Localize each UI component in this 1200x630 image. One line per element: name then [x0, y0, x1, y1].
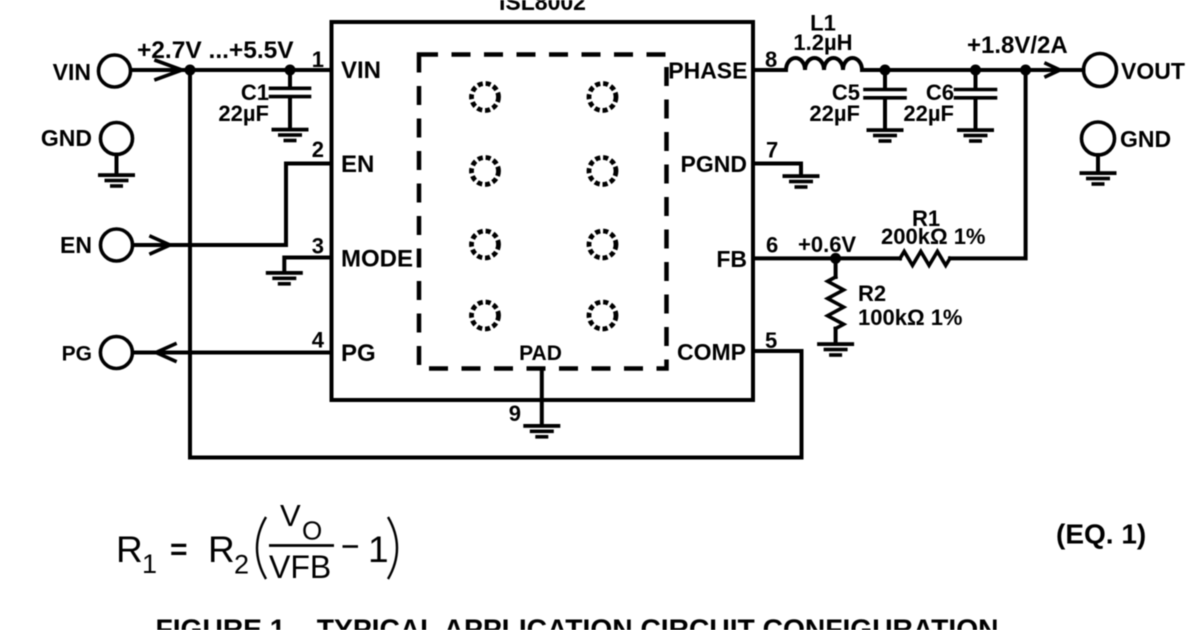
terminal EN — [101, 229, 133, 261]
svg-text:1: 1 — [142, 549, 157, 579]
capacitor C6 — [956, 90, 996, 98]
svg-text:VIN: VIN — [341, 57, 381, 84]
wire C6 stem top — [974, 70, 978, 88]
capacitor C5 — [865, 90, 905, 98]
svg-text:4: 4 — [312, 328, 325, 353]
arrow into EN — [151, 237, 170, 254]
node junction C1 tap — [285, 65, 296, 76]
terminal GND right — [1082, 122, 1115, 155]
wire PAD pin 9 stem — [540, 369, 544, 424]
node junction C6 tap — [970, 65, 981, 76]
wire GND left terminal stem — [115, 155, 119, 173]
svg-text:PHASE: PHASE — [668, 58, 747, 84]
wire C5 stem top — [883, 70, 887, 88]
svg-text:22µF: 22µF — [218, 101, 269, 126]
pad via 6 — [589, 231, 616, 258]
svg-text:V: V — [280, 498, 301, 533]
svg-text:VFB: VFB — [269, 549, 331, 585]
svg-text:VOUT: VOUT — [1121, 58, 1185, 84]
svg-text:=: = — [170, 533, 188, 566]
pad via 5 — [472, 231, 499, 258]
svg-text:22µF: 22µF — [809, 101, 860, 126]
arrow into VIN rail — [156, 61, 182, 80]
svg-text:R2: R2 — [858, 281, 886, 306]
svg-text:PG: PG — [62, 343, 92, 366]
wire EN input — [133, 243, 286, 247]
pad via 1 — [472, 84, 499, 111]
ground GND right terminal — [1080, 171, 1117, 186]
svg-text:200kΩ 1%: 200kΩ 1% — [881, 224, 986, 249]
svg-text:22µF: 22µF — [903, 101, 954, 126]
svg-text:5: 5 — [765, 328, 777, 353]
svg-text:COMP: COMP — [677, 339, 746, 365]
svg-text:ISL8002: ISL8002 — [499, 0, 586, 15]
wire riser to COMP — [800, 351, 804, 458]
wire left feedback vertical — [188, 70, 192, 458]
wire MODE stub pin 3 — [284, 258, 331, 272]
svg-text:1: 1 — [312, 47, 324, 72]
svg-text:GND: GND — [1120, 126, 1171, 152]
terminal GND left — [101, 123, 133, 155]
wire R1 to VOUT node — [950, 70, 1026, 258]
wire bottom feedback run — [190, 456, 802, 460]
svg-text:+2.7V ...+5.5V: +2.7V ...+5.5V — [137, 37, 294, 64]
svg-text:GND: GND — [41, 125, 92, 151]
ground R2 — [817, 342, 854, 357]
svg-text:3: 3 — [312, 234, 324, 259]
wire PGND stub pin 7 — [753, 164, 801, 175]
svg-text:7: 7 — [766, 138, 778, 163]
svg-text:FIGURE 1. TYPICAL APPLICATIO: FIGURE 1. TYPICAL APPLICATION CIRCUIT CO… — [155, 613, 998, 630]
resistor R2 — [828, 277, 844, 329]
wire EN riser to pin 2 — [286, 164, 332, 246]
svg-text:(EQ. 1): (EQ. 1) — [1056, 519, 1146, 550]
svg-text:PG: PG — [341, 340, 376, 367]
wire C1 stem top — [288, 70, 292, 87]
wire FB pin 6 to R1 — [753, 256, 900, 260]
wire GND right terminal stem — [1096, 155, 1100, 171]
wire L1 to VOUT — [862, 68, 1084, 72]
svg-text:FB: FB — [716, 246, 747, 272]
svg-text:EN: EN — [60, 232, 92, 258]
svg-text:2: 2 — [234, 550, 249, 580]
svg-text:+0.6V: +0.6V — [798, 232, 856, 257]
terminal VIN — [99, 55, 131, 87]
node junction FB divider — [830, 253, 841, 264]
svg-text:R: R — [116, 529, 143, 570]
terminal PG — [100, 337, 132, 369]
svg-text:MODE: MODE — [341, 246, 413, 273]
ground C5 — [867, 128, 904, 143]
wire C6 stem bottom — [974, 100, 978, 129]
node junction VIN rail left — [185, 65, 196, 76]
pad via 2 — [589, 84, 616, 111]
resistor R1 — [900, 251, 950, 265]
thermal pad dashed outline — [419, 55, 667, 369]
svg-text:6: 6 — [766, 233, 778, 258]
svg-text:VIN: VIN — [53, 59, 91, 85]
node junction C5 tap — [880, 65, 891, 76]
inductor L1 — [786, 58, 862, 70]
wire PG output pin 4 — [134, 351, 332, 355]
svg-text:+1.8V/2A: +1.8V/2A — [967, 32, 1068, 59]
wire PHASE pin 8 to L1 — [753, 68, 786, 72]
wire R2 stem top — [834, 258, 838, 277]
pad via 7 — [472, 302, 499, 329]
ground GND left terminal — [98, 173, 135, 188]
wire COMP stub pin 5 — [753, 349, 802, 353]
op-amp U1 ISL8002 IC body — [332, 22, 754, 400]
pad via 3 — [472, 158, 499, 185]
svg-text:100kΩ 1%: 100kΩ 1% — [858, 305, 963, 330]
node junction VOUT feedback tap — [1020, 65, 1031, 76]
svg-text:O: O — [302, 516, 322, 546]
svg-text:8: 8 — [765, 47, 777, 72]
wire C5 stem bottom — [883, 100, 887, 129]
capacitor C1 — [271, 88, 310, 96]
ground C6 — [957, 128, 994, 143]
pad via 8 — [589, 302, 616, 329]
terminal VOUT — [1084, 54, 1117, 87]
svg-text:PGND: PGND — [681, 151, 747, 177]
arrow out of PG — [156, 344, 175, 361]
arrow into VOUT — [1046, 64, 1060, 77]
wire VIN rail to pin 1 — [131, 68, 332, 72]
svg-text:1: 1 — [368, 529, 389, 570]
ground PGND pin 7 — [783, 174, 820, 189]
ground C1 — [272, 128, 309, 143]
ground MODE — [266, 271, 303, 286]
svg-text:1.2µH: 1.2µH — [793, 30, 852, 55]
svg-text:R: R — [208, 529, 235, 570]
svg-text:9: 9 — [509, 401, 521, 426]
pad via 4 — [589, 158, 616, 185]
svg-text:EN: EN — [341, 151, 374, 178]
svg-text:PAD: PAD — [519, 342, 562, 365]
ground PAD pin 9 — [523, 424, 560, 439]
wire C1 stem bottom — [288, 99, 292, 128]
svg-text:2: 2 — [312, 137, 324, 162]
wire R2 stem bottom — [834, 329, 838, 342]
